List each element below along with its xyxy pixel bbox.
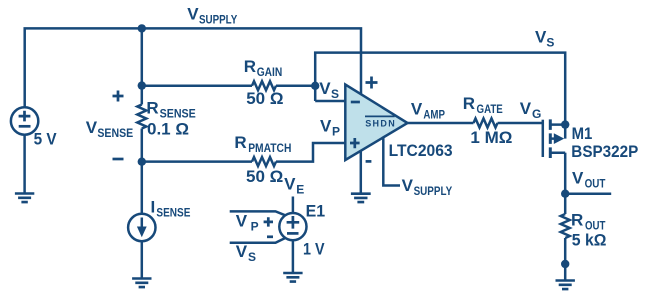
svg-text:BSP322P: BSP322P: [571, 142, 638, 161]
svg-text:PMATCH: PMATCH: [248, 141, 291, 155]
svg-text:S: S: [331, 87, 339, 101]
svg-text:V: V: [236, 242, 248, 261]
svg-text:V: V: [284, 175, 296, 194]
svg-text:0.1 Ω: 0.1 Ω: [147, 119, 189, 138]
svg-text:R: R: [146, 99, 158, 118]
svg-text:AMP: AMP: [423, 108, 445, 122]
svg-text:1 MΩ: 1 MΩ: [470, 128, 512, 147]
svg-text:SUPPLY: SUPPLY: [414, 184, 453, 198]
svg-text:E1: E1: [306, 202, 326, 221]
svg-text:V: V: [236, 212, 248, 231]
svg-text:GAIN: GAIN: [257, 65, 283, 79]
svg-text:R: R: [571, 210, 583, 229]
svg-text:V: V: [319, 79, 331, 98]
svg-text:G: G: [532, 107, 541, 121]
svg-text:SENSE: SENSE: [97, 126, 133, 140]
svg-text:1 V: 1 V: [303, 239, 325, 258]
svg-text:S: S: [546, 36, 554, 50]
svg-text:V: V: [572, 169, 584, 188]
svg-text:V: V: [520, 99, 532, 118]
svg-text:R: R: [234, 133, 246, 152]
svg-text:V: V: [411, 100, 423, 119]
svg-text:V: V: [402, 176, 414, 195]
svg-text:LTC2063: LTC2063: [389, 141, 453, 160]
svg-text:5 V: 5 V: [34, 130, 58, 149]
svg-text:R: R: [463, 94, 475, 113]
svg-text:SHDN: SHDN: [365, 118, 395, 128]
svg-text:R: R: [244, 57, 256, 76]
svg-text:50 Ω: 50 Ω: [246, 167, 283, 186]
svg-text:SUPPLY: SUPPLY: [199, 12, 237, 26]
svg-text:S: S: [248, 250, 256, 264]
svg-text:SENSE: SENSE: [156, 205, 190, 219]
svg-text:50 Ω: 50 Ω: [246, 89, 283, 108]
svg-text:P: P: [251, 220, 259, 234]
svg-text:V: V: [187, 4, 199, 23]
svg-text:5 kΩ: 5 kΩ: [572, 230, 607, 249]
svg-text:P: P: [332, 125, 340, 139]
svg-text:E: E: [296, 183, 304, 197]
svg-text:V: V: [535, 28, 547, 47]
svg-text:V: V: [86, 118, 98, 137]
svg-text:M1: M1: [572, 124, 593, 143]
svg-text:I: I: [151, 197, 156, 216]
svg-text:OUT: OUT: [585, 177, 606, 191]
svg-text:V: V: [320, 117, 332, 136]
svg-text:GATE: GATE: [477, 102, 503, 116]
